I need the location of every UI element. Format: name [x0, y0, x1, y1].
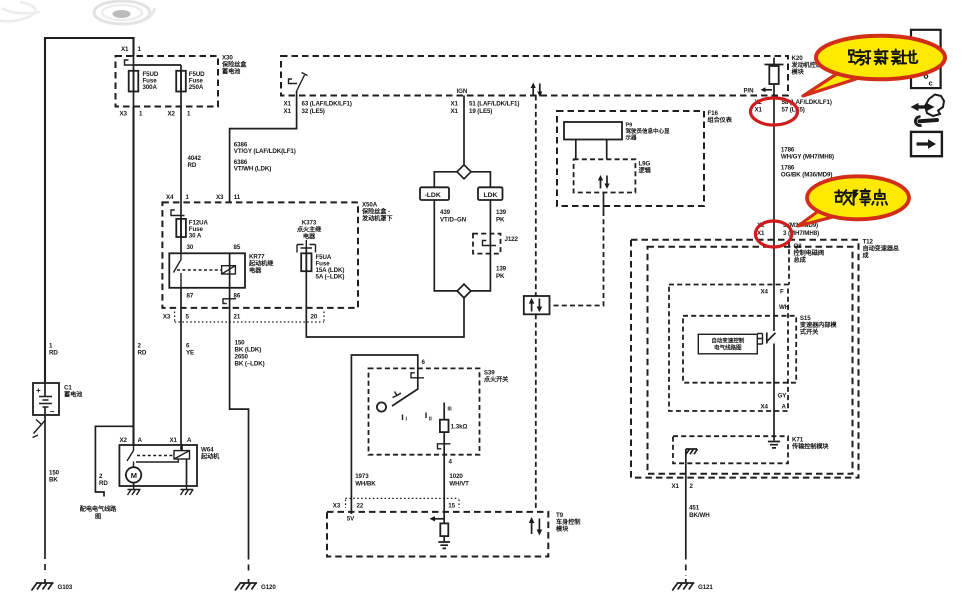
- svg-text:传输控制模块: 传输控制模块: [791, 443, 829, 451]
- wire bus inside X30: [134, 56, 182, 65]
- svg-text:OG/BK (M36/MD9): OG/BK (M36/MD9): [781, 172, 832, 179]
- node X2 pin A starter: [120, 437, 143, 444]
- dashed data wire from L9G: [603, 193, 605, 212]
- svg-text:P9: P9: [626, 123, 633, 129]
- svg-text:4042: 4042: [188, 155, 202, 162]
- L9G serial arrows: [598, 175, 610, 189]
- fault mark circle lower: [755, 221, 791, 247]
- serial data junction box: [524, 296, 550, 314]
- svg-text:成: 成: [863, 252, 870, 260]
- svg-text:P/N: P/N: [744, 88, 755, 95]
- svg-text:保险丝盒 -: 保险丝盒 -: [361, 208, 390, 216]
- svg-text:BK/WH: BK/WH: [689, 512, 710, 519]
- svg-text:蓄电池: 蓄电池: [64, 391, 83, 399]
- wire 1786 to transmission: [773, 96, 775, 332]
- starter solenoid coil: [174, 451, 190, 459]
- T9 input arrow: [434, 518, 445, 520]
- svg-text:K71: K71: [792, 437, 804, 444]
- K71 case ground symbol: [686, 449, 698, 463]
- svg-text:发动机罩下: 发动机罩下: [361, 215, 392, 223]
- svg-text:G121: G121: [698, 584, 713, 591]
- svg-text:S15: S15: [800, 315, 811, 322]
- battery negative clamp: [33, 420, 46, 438]
- label 1 RD: [49, 343, 58, 357]
- option box -LDK: [420, 187, 449, 200]
- svg-text:5V: 5V: [347, 516, 355, 523]
- svg-text:变速器内部模: 变速器内部模: [800, 321, 837, 329]
- svg-text:c: c: [929, 79, 933, 88]
- svg-text:自动变速控制: 自动变速控制: [711, 337, 744, 345]
- svg-text:57 (LE5): 57 (LE5): [782, 107, 805, 114]
- svg-text:起动机: 起动机: [200, 453, 220, 461]
- svg-text:3 (MH7/MH8): 3 (MH7/MH8): [783, 230, 819, 237]
- T9 internal ground: [438, 542, 450, 548]
- fuse F5UD 300A: [133, 65, 135, 107]
- svg-text:保险丝盒: 保险丝盒: [221, 61, 247, 69]
- node X3 pin 22: [333, 503, 364, 510]
- svg-text:WH: WH: [779, 304, 790, 311]
- clip below relay 86: [223, 299, 236, 304]
- relay KR77 coil: [222, 266, 236, 274]
- wire S39 pin6 to BCM 1973 WH/BK: [351, 355, 417, 514]
- svg-text:X1: X1: [284, 108, 292, 115]
- svg-text:X3: X3: [333, 503, 341, 510]
- svg-text:139: 139: [496, 266, 507, 273]
- svg-text:X1: X1: [284, 101, 292, 108]
- svg-text:1.3kΩ: 1.3kΩ: [451, 424, 468, 431]
- svg-text:150: 150: [49, 470, 60, 477]
- legend icon diagnostic wrench: [911, 95, 945, 126]
- wire 451 BK/WH: [685, 463, 687, 553]
- svg-text:RD: RD: [49, 350, 58, 357]
- node X1 pin 63 / 32: [284, 101, 352, 108]
- node X3 pin 1: [120, 111, 144, 118]
- connector X4 box: [669, 285, 788, 412]
- svg-text:J122: J122: [505, 236, 519, 243]
- svg-text:电器: 电器: [303, 233, 316, 241]
- wire 6386 VT/GY: [230, 96, 297, 203]
- starter motor M: [126, 467, 141, 482]
- svg-text:模块: 模块: [792, 68, 805, 76]
- svg-text:X3: X3: [120, 111, 128, 118]
- starter motor W64: [119, 445, 197, 486]
- svg-text:1786: 1786: [781, 165, 795, 172]
- svg-text:总成: 总成: [794, 256, 807, 264]
- SEC_WATERMARK: [0, 1, 155, 24]
- svg-text:点火开关: 点火开关: [484, 376, 509, 384]
- svg-text:G103: G103: [58, 584, 73, 591]
- callout bubble fault-point: [798, 176, 909, 226]
- svg-text:式开关: 式开关: [800, 328, 819, 336]
- svg-text:X3: X3: [216, 194, 224, 201]
- svg-text:5A (–LDK): 5A (–LDK): [316, 274, 345, 281]
- wires P9 to logic: [576, 140, 607, 160]
- ECM internal resistor to B+: [765, 58, 784, 67]
- clip in S39: [411, 373, 424, 378]
- starter solenoid switch: [127, 445, 134, 467]
- node X1 pin A starter: [170, 437, 193, 444]
- svg-text:T12: T12: [863, 239, 874, 246]
- fuse F5UD 250A: [180, 65, 182, 107]
- ECM internal switch: [289, 73, 308, 92]
- svg-text:模块: 模块: [556, 525, 569, 533]
- svg-text:F16: F16: [708, 110, 719, 117]
- svg-text:X1: X1: [672, 483, 680, 490]
- relay KR77 contact: [174, 253, 182, 287]
- svg-text:19 (LE5): 19 (LE5): [469, 108, 492, 115]
- label 1020 WH/VT: [449, 473, 469, 488]
- wire relay coil 85-86: [229, 253, 231, 287]
- callout bubble jumper-ground: [803, 36, 945, 96]
- wire battery positive loop 1 RD: [45, 38, 134, 383]
- svg-text:示器: 示器: [626, 134, 637, 142]
- svg-text:A: A: [138, 437, 143, 444]
- svg-text:PK: PK: [496, 217, 505, 224]
- wire to LDK branch: [471, 172, 490, 188]
- BCM connector dotted line X3: [346, 498, 460, 508]
- clip in J122: [483, 241, 497, 246]
- svg-text:–: –: [50, 407, 55, 416]
- fuse block X50A underhood: [162, 202, 358, 308]
- svg-text:C1: C1: [64, 385, 72, 392]
- ignition switch S39 box: [369, 368, 480, 454]
- relay KR77 starter relay: [169, 253, 245, 287]
- svg-text:X3: X3: [163, 314, 171, 321]
- svg-text:BK: BK: [49, 477, 58, 484]
- svg-text:VT/WH (LDK): VT/WH (LDK): [234, 165, 271, 172]
- svg-text:VT/D–GN: VT/D–GN: [440, 217, 467, 224]
- svg-text:15: 15: [448, 503, 455, 510]
- label 150 BK: [49, 470, 60, 484]
- svg-text:32 (LE5): 32 (LE5): [302, 108, 325, 115]
- svg-text:30 A: 30 A: [189, 233, 202, 240]
- body control module T9 box: [327, 512, 548, 557]
- svg-text:电气线路图: 电气线路图: [714, 344, 742, 352]
- svg-text:20: 20: [311, 314, 318, 321]
- svg-text:X1: X1: [757, 230, 765, 237]
- svg-text:WH/BK: WH/BK: [355, 481, 376, 488]
- wire 150 BK 2650 to G120: [230, 288, 249, 554]
- svg-text:X1: X1: [121, 46, 129, 53]
- svg-text:A: A: [187, 437, 192, 444]
- svg-text:BK (LDK): BK (LDK): [235, 347, 262, 354]
- starter grounds: [128, 486, 194, 495]
- svg-text:X2: X2: [168, 111, 176, 118]
- node X4 pin 1 of X50A: [166, 194, 190, 201]
- svg-text:X30: X30: [222, 55, 233, 62]
- svg-text:2650: 2650: [235, 354, 249, 361]
- svg-text:IGN: IGN: [457, 88, 468, 95]
- svg-text:点火主继: 点火主继: [297, 226, 322, 234]
- T9 serial arrows: [529, 517, 542, 536]
- ECM serial data arrows: [531, 83, 543, 98]
- svg-text:W64: W64: [201, 447, 214, 454]
- S39 rotary contact: [392, 374, 418, 406]
- svg-text:139: 139: [496, 209, 507, 216]
- svg-text:图: 图: [95, 513, 101, 521]
- clip above fuse F12UA: [171, 210, 185, 216]
- svg-text:起动机继: 起动机继: [248, 260, 274, 268]
- wire dashed to G103: [44, 553, 46, 575]
- svg-text:X1: X1: [451, 101, 459, 108]
- ECM K20 engine control module box: [281, 56, 788, 96]
- bus bracket above F5UA: [297, 240, 316, 253]
- svg-text:21: 21: [234, 314, 241, 321]
- node diamond lower: [457, 284, 471, 298]
- svg-text:自动变速器总: 自动变速器总: [863, 245, 900, 253]
- instrument cluster F16 box: [557, 111, 704, 206]
- svg-text:T9: T9: [556, 512, 564, 519]
- svg-text:车身控制: 车身控制: [556, 518, 580, 526]
- svg-text:G120: G120: [261, 584, 276, 591]
- fault mark circle upper: [751, 98, 798, 125]
- wire 139 PK upper: [471, 200, 491, 291]
- ground G103: [32, 579, 54, 591]
- svg-text:X4: X4: [761, 289, 769, 296]
- node X1 pin 2: [672, 483, 694, 490]
- svg-text:PK: PK: [496, 273, 505, 280]
- control solenoid assembly Q8 inner box: [648, 247, 853, 474]
- logic block L9G: [574, 159, 636, 192]
- relay K373 ignition main relay label: [297, 220, 322, 241]
- svg-text:51 (LAF/LDK/LF1): 51 (LAF/LDK/LF1): [469, 101, 519, 108]
- svg-text:30: 30: [187, 244, 194, 251]
- svg-text:A: A: [782, 404, 787, 411]
- svg-text:22: 22: [357, 503, 364, 510]
- node X3 pin 11 of X50A: [216, 194, 241, 201]
- node X4 pin F: [761, 289, 785, 296]
- svg-text:蓄电池: 蓄电池: [222, 68, 241, 76]
- TCM K71 box: [673, 436, 788, 463]
- svg-text:组合仪表: 组合仪表: [708, 116, 733, 124]
- contact position I: [402, 415, 404, 421]
- svg-text:-LDK: -LDK: [425, 192, 441, 199]
- dashed serial data bus: [535, 96, 537, 509]
- wire 439 VT/D-GN: [434, 200, 457, 291]
- node X2 pin 58 / X1 pin 57: [755, 99, 832, 106]
- resistor 1.3k in S39: [443, 403, 445, 420]
- mode switch contact: [757, 334, 762, 345]
- svg-text:X1: X1: [170, 437, 178, 444]
- svg-text:150: 150: [235, 340, 246, 347]
- svg-text:YE: YE: [186, 350, 194, 357]
- T9 pulldown resistor: [440, 523, 448, 536]
- svg-text:X50A: X50A: [362, 202, 378, 209]
- svg-text:87: 87: [187, 293, 194, 300]
- svg-text:Q8: Q8: [794, 243, 803, 250]
- fuse F12UA 30A: [176, 219, 186, 237]
- legend icon connector box: [911, 30, 941, 88]
- wire to -LDK branch: [434, 172, 457, 188]
- mode switch S15 box: [683, 316, 796, 383]
- svg-text:K20: K20: [792, 55, 804, 62]
- svg-text:250A: 250A: [189, 84, 204, 91]
- svg-text:控制电磁阀: 控制电磁阀: [794, 249, 824, 257]
- display P9 driver info center: [564, 122, 622, 140]
- callout text gu zhang dian: [835, 189, 887, 205]
- svg-text:VT/GY (LAF/LDK(LF1): VT/GY (LAF/LDK(LF1): [234, 148, 296, 155]
- callout text kua jie jie di: [849, 49, 917, 64]
- fuse block X30 battery: [116, 56, 219, 107]
- svg-text:KR77: KR77: [249, 254, 265, 261]
- contact position II: [425, 413, 427, 419]
- svg-text:RD: RD: [138, 350, 147, 357]
- svg-text:1020: 1020: [449, 473, 463, 480]
- svg-text:M: M: [131, 471, 137, 480]
- label Q8: [788, 241, 790, 285]
- option box LDK: [478, 187, 503, 200]
- svg-text:1973: 1973: [355, 473, 369, 480]
- reference box auto trans control: [698, 334, 757, 354]
- svg-text:BK (–LDK): BK (–LDK): [235, 361, 265, 368]
- node X3 pin 5: [163, 314, 190, 321]
- clip splice in X30: [125, 60, 134, 65]
- svg-text:451: 451: [689, 505, 700, 512]
- svg-text:逻辑: 逻辑: [638, 167, 652, 175]
- inline connector J122: [473, 234, 501, 254]
- clip lower S39: [438, 444, 451, 449]
- wire IGN feed: [463, 96, 465, 166]
- wire F5UA to diamond: [306, 271, 464, 337]
- svg-text:GY: GY: [778, 393, 788, 400]
- svg-text:439: 439: [440, 209, 451, 216]
- wire branch 2 RD to power distribution: [95, 426, 133, 496]
- K71 internal ground: [768, 442, 780, 448]
- svg-text:1786: 1786: [781, 147, 795, 154]
- wire GY: [773, 344, 775, 441]
- svg-text:F: F: [780, 289, 784, 296]
- svg-text:WH/VT: WH/VT: [449, 481, 469, 488]
- node X4 pin A: [761, 404, 787, 411]
- svg-text:LDK: LDK: [484, 192, 498, 199]
- svg-text:RD: RD: [188, 162, 197, 169]
- svg-text:L9G: L9G: [639, 161, 651, 168]
- svg-text:300A: 300A: [143, 84, 158, 91]
- node X2 pin 1: [168, 111, 192, 118]
- fuse F5UA: [305, 247, 307, 271]
- wire 2 RD fuse300A to starter: [132, 107, 134, 446]
- svg-text:K373: K373: [302, 220, 317, 227]
- svg-text:X2: X2: [120, 437, 128, 444]
- svg-text:X1: X1: [451, 108, 459, 115]
- svg-text:X4: X4: [166, 194, 174, 201]
- svg-text:WH/GY (MH7/MH8): WH/GY (MH7/MH8): [781, 154, 834, 161]
- svg-text:X1: X1: [755, 107, 763, 114]
- svg-text:驾驶员信息中心显: 驾驶员信息中心显: [625, 127, 670, 135]
- label 1973 WH/BK: [355, 473, 376, 488]
- node X1 pin 5 / X1 pin 3: [757, 222, 818, 229]
- svg-text:85: 85: [234, 244, 241, 251]
- ground G121: [672, 579, 694, 591]
- svg-text:配电电气线路: 配电电气线路: [80, 505, 117, 513]
- svg-text:X4: X4: [761, 404, 769, 411]
- ground G120: [235, 579, 257, 591]
- svg-text:+: +: [36, 386, 41, 395]
- wire 6 YE relay87 to starter X1A: [180, 288, 182, 451]
- node X1 pin 1 of X30: [121, 46, 142, 53]
- X50A bottom connector dotted line: [175, 312, 324, 323]
- svg-text:S39: S39: [484, 370, 495, 377]
- label 139 PK lower: [496, 266, 507, 281]
- transmission assembly T12 outer box: [631, 240, 859, 478]
- svg-text:63 (LAF/LDK/LF1): 63 (LAF/LDK/LF1): [302, 101, 352, 108]
- svg-text:III: III: [448, 407, 453, 413]
- svg-text:电器: 电器: [249, 267, 262, 275]
- legend icon forward arrow box: [911, 132, 942, 156]
- node diamond upper: [457, 165, 471, 179]
- svg-text:11: 11: [234, 194, 241, 201]
- wire 4042 RD: [180, 107, 182, 254]
- node X1 pin 51 / 19: [451, 101, 520, 108]
- svg-text:RD: RD: [99, 480, 108, 487]
- battery C1: [33, 383, 59, 415]
